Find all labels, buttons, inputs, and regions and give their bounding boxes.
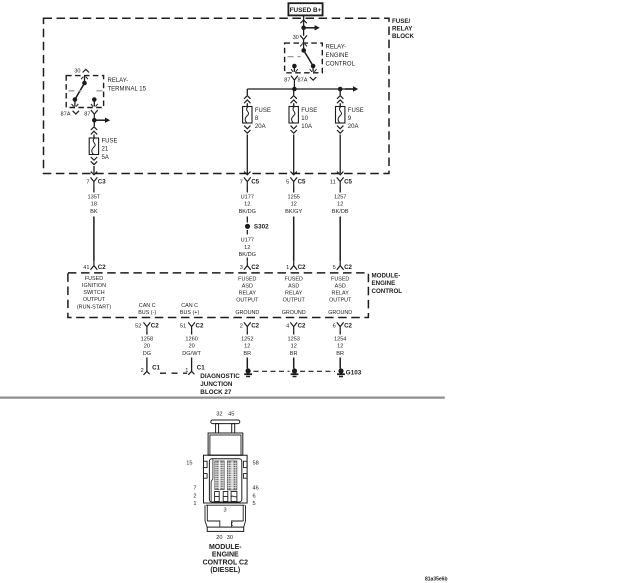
svg-text:1: 1 [193,501,196,507]
pin 87 terminal fork (relay-engine control) [291,76,298,84]
pin 87A open terminal (relay-engine control) [310,77,316,80]
inline connector chevrons above fuse 8 [244,96,250,104]
connector C2 pin 1 label (ASD col 2) [286,265,289,271]
svg-text:52: 52 [135,324,141,330]
bus junction dot at right branch [338,87,343,92]
wire 1254 12 BR label [334,336,346,357]
svg-text:C1: C1 [197,365,205,372]
connector pin field right (pins 58-46) [227,461,236,490]
svg-text:OUTPUT: OUTPUT [329,298,352,304]
svg-text:32: 32 [216,412,222,418]
pin 87A label (relay-terminal 15) [61,111,71,117]
connector C2 terminal fork (pin 52) [144,322,151,330]
svg-text:RELAY: RELAY [285,291,303,297]
svg-text:BK/DB: BK/DB [332,209,349,215]
module CAN C bus(-) label [138,303,156,316]
module CAN C bus(+) label [180,303,200,316]
inline connector chevrons below fuse 10 [291,126,297,134]
svg-text:BLOCK 27: BLOCK 27 [200,389,232,396]
connector C1 pin 1 label [185,368,188,374]
svg-text:46: 46 [253,486,259,492]
module ground label (col 1) [235,310,259,316]
wire 1252 segment [246,330,248,334]
svg-text:1252: 1252 [241,336,253,342]
wire bus drop to fuse 10 [293,89,295,95]
svg-text:6: 6 [253,493,256,499]
svg-text:45: 45 [228,412,234,418]
wire 1258 to C1 [146,358,148,372]
svg-text:(RUN-START): (RUN-START) [77,305,111,311]
boundary arrow at fuse/relay block (B+ feed) [300,20,306,23]
svg-text:IGNITION: IGNITION [82,283,106,289]
inline connector chevrons above fuse 21 [91,127,97,135]
svg-text:GROUND: GROUND [282,310,306,316]
svg-text:CONTROL: CONTROL [372,288,403,295]
connector C2 name (pin 51) [196,323,204,330]
connector C2 terminal fork (ASD pin 1) [290,262,297,270]
svg-text:C2: C2 [196,323,204,330]
connector face pin 32 45 labels [216,412,234,418]
svg-text:C3: C3 [98,179,106,186]
svg-text:SWITCH: SWITCH [83,290,104,296]
relay-engine control 87A stub [310,66,317,72]
connector lower bracket [205,521,246,531]
relay K-engine control outline [285,43,323,73]
svg-text:C2: C2 [98,264,106,271]
svg-text:BLOCK: BLOCK [392,33,415,40]
svg-text:CAN C: CAN C [181,303,198,309]
svg-text:S302: S302 [254,224,269,231]
svg-text:ENGINE: ENGINE [212,552,239,559]
relay-terminal 15 armature (to 87A) [75,83,85,100]
svg-text:20: 20 [188,344,194,350]
svg-text:20: 20 [216,535,222,541]
wire U177 12 BK/DG label (below splice) [239,238,256,259]
svg-text:GROUND: GROUND [235,310,259,316]
wire into fuse 9 [339,103,341,106]
svg-text:U177: U177 [241,194,254,200]
wire 1255 to C2 pin 1 [293,217,295,262]
connector C2 pin 3 label (ASD col 1) [240,265,243,271]
connector face pin 20 30 labels [216,535,233,541]
splice S302 label [254,224,269,231]
svg-text:C2: C2 [251,323,259,330]
svg-text:CAN C: CAN C [139,303,156,309]
svg-text:135T: 135T [88,194,101,200]
svg-text:BR: BR [243,351,251,357]
fuse 8 label [255,108,271,130]
svg-text:C2: C2 [344,323,352,330]
connector C2 name (ground pin 2) [251,323,259,330]
connector pin row labels left [186,461,196,508]
svg-text:C2: C2 [251,264,259,271]
wire fuse 9 to C5 [339,135,341,174]
ground point (col 1) [244,368,252,376]
junction dot below 87 (terminal 15) [92,118,97,123]
fuse 21 (5A) [89,138,98,155]
module-engine control label [372,273,403,295]
svg-text:12: 12 [244,202,250,208]
wire 1252 12 BR label [241,336,253,357]
boundary arrow at block exit (fuse 21) [91,172,97,175]
svg-text:BR: BR [290,351,298,357]
svg-text:2: 2 [240,324,243,330]
connector body outer [204,455,248,503]
svg-text:20A: 20A [348,124,359,130]
wire U177 12 BK/DG label [239,194,256,215]
inline connector chevrons below fuse 9 [337,126,343,134]
connector C1 terminal foot (pin 1) [188,372,194,375]
svg-text:MODULE-: MODULE- [372,273,401,280]
connector upper shell inner [210,435,241,455]
arrow to other circuits (right) from B+ node [304,25,320,30]
pin 87 terminal fork (relay-terminal 15) [91,110,98,118]
module ground label (col 2) [282,310,306,316]
connector C2 pin 51 label (CAN) [180,324,186,330]
connector C2 pin 5 label (ASD col 3) [333,265,336,271]
svg-text:30: 30 [227,535,233,541]
svg-text:OUTPUT: OUTPUT [283,298,306,304]
connector C3 terminal fork [91,177,98,185]
svg-text:4: 4 [286,324,289,330]
connector C5 terminal fork (pin 5) [290,177,297,185]
wire 1252 to ground [246,358,248,369]
relay-terminal 15 87A stub [72,100,79,107]
connector C2 terminal fork (pin 51) [188,322,195,330]
connector C5 pin 11 label [330,180,336,186]
svg-text:1: 1 [286,265,289,271]
svg-text:87A: 87A [61,111,71,117]
svg-text:1255: 1255 [287,194,299,200]
inline connector chevrons above fuse 9 [337,96,343,104]
connector lever bar [211,420,240,424]
svg-text:MODULE-: MODULE- [209,544,242,551]
module pin 41 function label [77,276,111,311]
document code [425,576,448,582]
svg-text:RELAY: RELAY [392,25,413,32]
ground link dashes 1 [254,370,290,372]
svg-text:FUSE: FUSE [102,139,118,145]
svg-text:FUSE: FUSE [301,108,317,114]
arrow to other circuits from 87 junction [94,118,110,123]
wire from FUSED B+ into block [303,15,305,35]
svg-text:TERMINAL 15: TERMINAL 15 [108,87,147,93]
wire 1257 segment below C5 [339,185,341,192]
svg-text:C2: C2 [298,323,306,330]
wire 1254 segment [339,330,341,334]
svg-text:12: 12 [337,202,343,208]
connector lower left leg [205,505,207,521]
node FUSED B+ [288,3,322,15]
svg-text:U177: U177 [241,238,254,244]
wire into fuse 8 [246,103,248,106]
svg-text:12: 12 [291,202,297,208]
svg-text:12: 12 [244,245,250,251]
wire fuse 10 to C5 [293,135,295,174]
connector C5 terminal fork (pin 7) [244,177,251,185]
connector keyway slot 3 [231,492,237,502]
wire 1255 12 BK/GY label [285,194,302,215]
svg-text:FUSE: FUSE [255,108,271,114]
svg-text:5: 5 [333,265,336,271]
connector C5 pin 7 label [240,180,243,186]
svg-text:ENGINE: ENGINE [372,280,396,287]
wire 135T segment (C3 to label) [93,185,95,192]
svg-text:ASD: ASD [242,284,253,290]
inline connector chevrons below fuse 21 [91,157,97,165]
svg-text:BUS (+): BUS (+) [180,310,200,316]
relay-engine control coil dashes [288,56,301,58]
svg-text:BUS (-): BUS (-) [138,310,156,316]
svg-text:12: 12 [337,344,343,350]
connector keyway slot 2 [223,492,228,502]
pin 87A open terminal (relay-terminal 15) [73,111,79,114]
wire relay 87 down to bus [293,84,295,89]
svg-text:FUSED B+: FUSED B+ [290,7,322,14]
fuse/relay block label [392,18,415,40]
svg-text:18: 18 [91,202,97,208]
connector C5 name (pin 5) [298,179,306,186]
svg-text:21: 21 [102,147,109,153]
connector C2 pin 41 label [83,265,89,271]
svg-text:BK: BK [90,209,98,215]
module ASD output label (col 1) [236,277,259,304]
svg-text:2: 2 [141,368,144,374]
svg-text:7: 7 [193,486,196,492]
svg-text:1260: 1260 [185,336,197,342]
wire 1255 segment below C5 [293,185,295,192]
bus junction dot at 87 column [292,87,297,92]
relay-engine control 87 stub [291,66,298,72]
connector lever left prong [216,424,219,433]
wire 87 down to junction [93,118,95,126]
svg-text:C5: C5 [344,179,352,186]
ground link dashes 2 [300,370,335,372]
svg-text:2: 2 [193,493,196,499]
connector C2 name (ASD pin 1) [298,264,306,271]
svg-text:10A: 10A [301,124,312,130]
relay-terminal 15 common dot [82,81,87,86]
connector C2 name (ground pin 4) [298,323,306,330]
relay-engine control 87A dot [311,64,316,69]
svg-text:5A: 5A [102,155,109,161]
relay-engine control common dot [301,48,306,53]
svg-text:11: 11 [330,180,336,186]
svg-text:CONTROL C2: CONTROL C2 [203,559,248,566]
connector keyway slot 1 [215,492,220,502]
wire 1260 to C1 [191,358,193,372]
svg-text:1258: 1258 [141,336,153,342]
svg-text:FUSE: FUSE [348,108,364,114]
svg-text:RELAY-: RELAY- [108,78,129,84]
connector pin field left (pins 15-7) [215,461,224,490]
wire U177 segment below C5 [246,185,248,192]
relay-engine control armature (to 87A) [304,50,313,66]
connector C2 name (ASD pin 3) [251,264,259,271]
svg-text:12: 12 [291,344,297,350]
module ground label (col 3) [328,310,352,316]
relay-terminal 15 label [108,78,147,93]
svg-text:RELAY: RELAY [332,291,350,297]
fuse 10 (10A) [289,107,298,124]
svg-text:BK/DG: BK/DG [239,252,256,258]
connector upper shell outer [208,433,243,455]
connector C1 terminal foot (pin 2) [144,372,150,375]
wire 1258 segment [146,330,148,334]
relay-terminal 15 coil dashes [69,90,103,92]
connector C5 terminal fork (pin 11) [337,177,344,185]
svg-text:51: 51 [180,324,186,330]
svg-text:GROUND: GROUND [328,310,352,316]
connector C1 name (pin 2) [152,365,160,372]
svg-text:3: 3 [223,508,226,514]
pin 87A label (relay-engine control) [298,78,308,84]
fuse 10 label [301,108,317,130]
wire 1253 segment [293,330,295,334]
svg-text:(DIESEL): (DIESEL) [210,567,240,574]
connector C5 pin 5 label [286,180,289,186]
connector C3 pin 7 label [86,180,89,186]
svg-text:BR: BR [336,351,344,357]
fuse/relay block outline [44,18,390,173]
connector C5 name (pin 11) [344,179,352,186]
svg-text:1254: 1254 [334,336,346,342]
pin 30 open terminal (relay-terminal 15) [83,69,89,72]
svg-text:C2: C2 [298,264,306,271]
wire into fuse 21 [93,135,95,139]
pin 87 label (relay-engine control) [284,78,290,84]
connector C2 name (ASD pin 5) [344,264,352,271]
svg-text:DG: DG [143,351,151,357]
fuse 21 label [102,139,118,162]
wire 1260 20 DG/WT label [182,336,201,357]
relay-engine control label [326,44,356,67]
svg-text:87: 87 [284,78,290,84]
connector C2 terminal fork (ground pin 6) [337,322,344,330]
connector body right notch 1 [244,461,248,467]
wire 135T 18 BK label [88,194,101,215]
wire 1257 to C2 pin 5 [339,217,341,262]
svg-text:58: 58 [253,461,259,467]
svg-text:3: 3 [240,265,243,271]
module-engine control C2 (diesel) caption [203,544,248,574]
svg-text:ASD: ASD [288,284,299,290]
svg-text:5: 5 [286,180,289,186]
boundary arrow at block exit (fuse 9) [337,172,343,175]
pin 30 terminal fork (relay-engine control) [300,35,307,43]
connector C2 name (pin 52) [151,323,159,330]
svg-text:7: 7 [86,180,89,186]
wire U177 to C2 pin 3 [246,258,248,262]
connector body right notch 2 [244,474,248,479]
wire 1253 to ground [293,358,295,369]
relay-terminal 15 outline [66,76,103,108]
svg-text:7: 7 [240,180,243,186]
wire 1257 12 BK/DB label [332,194,349,215]
relay-terminal 15 common wire [81,76,88,83]
bus arrow to other circuits [345,86,358,91]
svg-text:OUTPUT: OUTPUT [236,298,259,304]
svg-text:CONTROL: CONTROL [326,62,356,68]
diagnostic junction block 27 label [200,373,240,396]
splice S302 [245,224,250,229]
relay-engine control 87 dot [292,64,297,69]
connector C2 pin 41 terminal fork [91,262,98,270]
svg-text:ASD: ASD [335,284,346,290]
svg-text:OUTPUT: OUTPUT [83,297,106,303]
wire bus drop to fuse 9 [339,89,341,95]
svg-text:41: 41 [83,265,89,271]
svg-text:DG/WT: DG/WT [182,351,201,357]
connector C2 pin 4 label (ground col 2) [286,324,289,330]
fuse 9 (20A) [336,107,345,124]
junction dot below B+ [301,26,306,31]
fuse 9 label [348,108,364,130]
svg-text:C5: C5 [298,179,306,186]
connector body inner face [209,459,241,502]
connector pin row labels right [253,461,259,508]
wire 1260 segment [191,330,193,334]
svg-text:1257: 1257 [334,194,346,200]
connector lower right leg [243,505,245,521]
wire fuse 21 to C3 [93,166,95,174]
inline connector chevrons below fuse 8 [244,126,250,134]
connector C2 pin 52 label (CAN) [135,324,141,330]
ground point (col 3) [337,368,345,376]
svg-text:FUSED: FUSED [331,277,349,283]
svg-text:DIAGNOSTIC: DIAGNOSTIC [200,373,240,380]
connector C2 terminal fork (ground pin 2) [244,322,251,330]
bus wire to fuses [247,88,353,90]
wire 1253 12 BR label [287,336,299,357]
connector C2 name (ground pin 6) [344,323,352,330]
connector lower lip [206,504,245,506]
svg-text:FUSED: FUSED [85,276,103,282]
page separator rule [0,397,445,399]
svg-text:30: 30 [74,68,80,74]
wire into fuse 10 [293,103,295,106]
svg-text:81a35e6b: 81a35e6b [425,576,448,582]
svg-text:BK/GY: BK/GY [285,209,302,215]
wire bus drop to fuse 8 [246,89,248,95]
connector C2 terminal fork (ground pin 4) [290,322,297,330]
connector C2 pin 6 label (ground col 3) [333,324,336,330]
svg-text:G103: G103 [346,370,362,377]
svg-text:C5: C5 [251,179,259,186]
pin 30 label (relay-engine control) [293,35,299,41]
connector C2 name at pin 41 [98,264,106,271]
svg-text:20A: 20A [255,124,266,130]
relay-terminal 15 87 stub [91,100,98,107]
wire 1258 20 DG label [141,336,153,357]
connector lever right prong [232,424,235,433]
svg-text:C2: C2 [344,264,352,271]
connector C5 name (pin 7) [251,179,259,186]
pin 30 label (relay-terminal 15) [74,68,80,74]
inline connector chevrons above fuse 10 [291,96,297,104]
svg-text:FUSED: FUSED [238,277,256,283]
connector pin 3 label [223,508,226,514]
connector body left notch 2 [204,474,208,479]
pin 87 label (relay-terminal 15) [84,111,90,117]
ground point (col 2) [291,368,299,376]
diagnostic junction block dashed link [160,372,187,374]
ground G103 label [346,370,362,377]
connector C2 terminal fork (ASD pin 3) [244,262,251,270]
svg-text:10: 10 [301,116,308,122]
svg-text:87: 87 [84,111,90,117]
connector body left notch 1 [204,461,208,467]
